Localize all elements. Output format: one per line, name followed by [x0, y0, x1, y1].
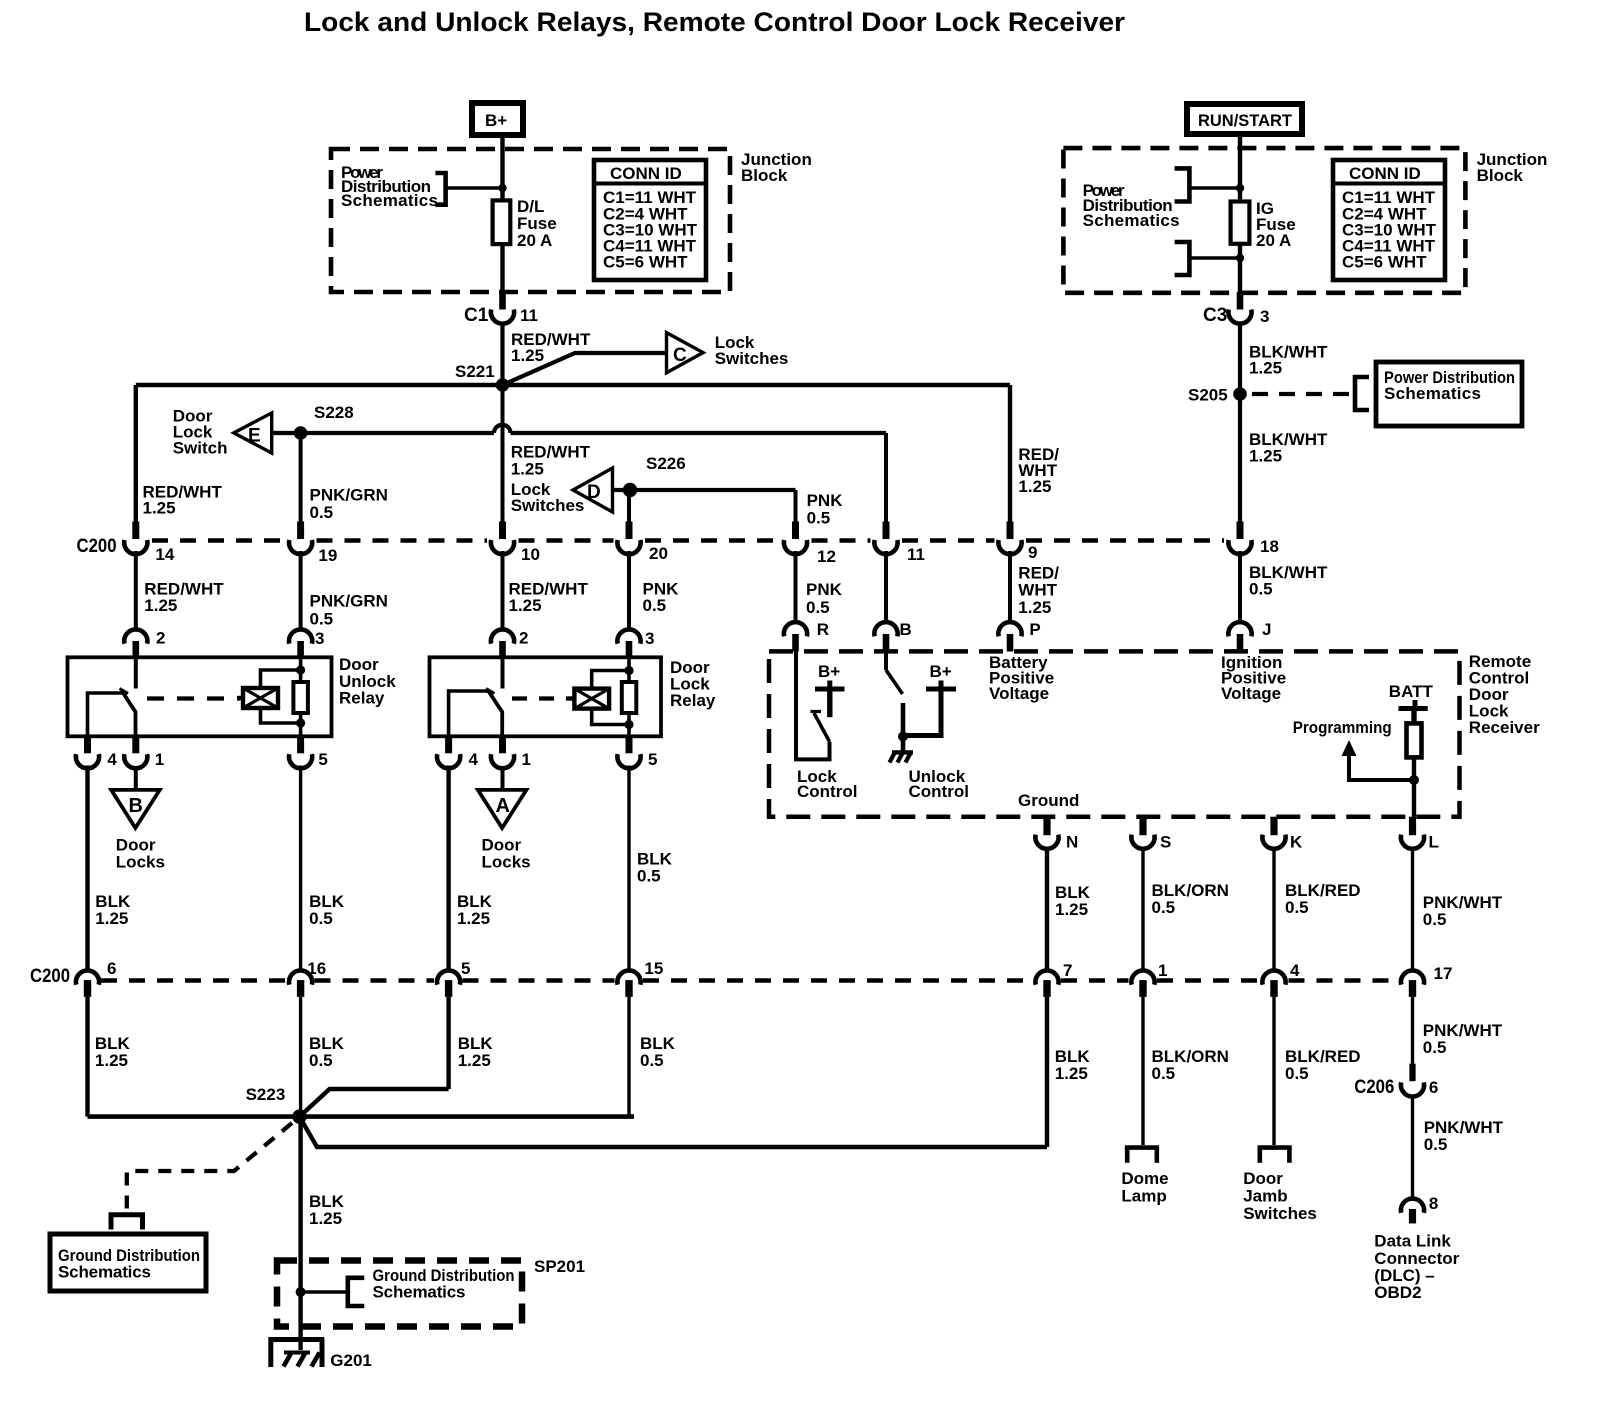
- svg-text:2: 2: [156, 629, 165, 648]
- wire C200-16 down to S223: [299, 997, 302, 1117]
- svg-text:6: 6: [1429, 1078, 1438, 1097]
- node relay K1 top: [296, 665, 305, 674]
- unlock control rake ground: [890, 752, 914, 762]
- wire label RED/WHT 1.25 (col 14 below C200): [144, 580, 224, 616]
- svg-text:1: 1: [522, 750, 531, 769]
- off-page triangle C: [667, 333, 704, 373]
- wire RUN/START down to fuse: [1238, 134, 1242, 202]
- wire SP201 node to bracket: [301, 1290, 348, 1294]
- relay K1 box: [68, 657, 332, 736]
- svg-text:Switches: Switches: [715, 349, 789, 368]
- wire label BLK/ORN 0.5 (col 1 below C200): [1152, 1047, 1229, 1083]
- node relay K2 top: [624, 666, 633, 675]
- svg-text:3: 3: [315, 629, 324, 648]
- wire S221 down to C200-10: [501, 385, 505, 523]
- wire hop to C200-11 branch: [511, 431, 887, 435]
- junction block 1 label: [741, 150, 812, 185]
- bracket connector lower (right JB): [1175, 242, 1190, 275]
- svg-text:0.5: 0.5: [1285, 898, 1309, 917]
- wire label BLK 0.5 (col 16 above C200): [309, 892, 345, 928]
- wire C200-11 to receiver pin B: [884, 551, 888, 622]
- connector relay1 pin 4: [76, 736, 118, 769]
- junction block 2 dashed box: [1063, 148, 1465, 293]
- door jamb switches label: [1243, 1169, 1317, 1223]
- svg-text:S228: S228: [314, 403, 354, 422]
- wire col 12 down to C200-12: [794, 490, 798, 523]
- wire label BLK 1.25 (col 7 below C200): [1055, 1047, 1091, 1083]
- connector C200 pin 17: [1401, 964, 1453, 997]
- svg-text:C5=6 WHT: C5=6 WHT: [603, 253, 688, 272]
- svg-text:4: 4: [469, 750, 479, 769]
- svg-text:0.5: 0.5: [640, 1051, 664, 1070]
- wire S223 main bus horizontal: [88, 1114, 635, 1119]
- connector receiver pin P: [998, 620, 1040, 652]
- svg-text:1.25: 1.25: [143, 499, 176, 518]
- svg-text:B+: B+: [485, 111, 507, 130]
- wire relay2 pin4 to C200-5: [446, 766, 450, 969]
- wire S205 down to C200-18: [1238, 394, 1242, 523]
- wire receiver pin S to C200-1: [1141, 848, 1144, 969]
- svg-text:Receiver: Receiver: [1469, 718, 1540, 737]
- svg-text:Voltage: Voltage: [1221, 684, 1281, 703]
- relay K1 coil: [237, 688, 278, 708]
- wire S223 down to G201: [298, 1117, 302, 1350]
- off-page triangle A: [478, 790, 527, 828]
- wire lower bracket to main: [1189, 256, 1240, 260]
- connector C200 pin 11: [874, 522, 925, 565]
- wire S223 upper elbow: [300, 1089, 449, 1117]
- relay K2 resistor: [622, 682, 637, 713]
- wire S226 down to C200-20: [627, 490, 631, 523]
- wire label PNK/WHT 0.5 (col 17 below C200): [1423, 1021, 1503, 1057]
- connector relay2 pin 3 entry: [617, 629, 654, 658]
- fuse F2 IG 20A: [1231, 202, 1250, 244]
- wire S228 down to C200-19: [299, 433, 303, 523]
- junction block 1 dashed box: [331, 149, 730, 292]
- svg-text:Relay: Relay: [670, 691, 716, 710]
- wire hop over S221 vertical: [494, 425, 511, 433]
- wire label BLK/WHT 1.25 (C3-S205): [1249, 343, 1328, 378]
- C200 row2 dashed harness line: [101, 978, 1398, 983]
- svg-text:Control: Control: [909, 782, 969, 801]
- svg-text:PNK: PNK: [806, 580, 843, 599]
- svg-text:3: 3: [645, 629, 654, 648]
- svg-text:0.5: 0.5: [1152, 1064, 1176, 1083]
- wire C200-12 to receiver pin R: [794, 551, 798, 622]
- svg-text:20 A: 20 A: [1256, 231, 1291, 250]
- svg-text:S: S: [1160, 833, 1171, 852]
- splice S221: [496, 378, 510, 392]
- wire label BLK/RED 0.5 (col 4 above C200): [1285, 881, 1361, 917]
- wire label BLK 0.5 (col 16 below C200): [309, 1034, 345, 1070]
- svg-text:Ground: Ground: [1018, 791, 1079, 810]
- relay K2 contact tick: [486, 689, 495, 694]
- svg-text:Locks: Locks: [482, 852, 531, 871]
- connector receiver pin L: [1401, 817, 1439, 852]
- B+ power symbol box: [472, 103, 523, 135]
- fork symbol to ground distribution: [109, 1215, 146, 1230]
- fuse F1 D/L 20A: [493, 200, 511, 244]
- svg-text:B+: B+: [930, 662, 952, 681]
- splice S228: [294, 426, 308, 440]
- wire label BLK/RED 0.5 (col 4 below C200): [1285, 1047, 1361, 1083]
- svg-text:1.25: 1.25: [1055, 900, 1088, 919]
- node BATT/programming junction: [1409, 775, 1419, 785]
- wire C200-7 down to ground bus: [1045, 997, 1049, 1147]
- relay K1 contact tick: [120, 689, 129, 694]
- svg-text:17: 17: [1434, 964, 1453, 983]
- wire C200-20 to relay2 pin3: [627, 551, 631, 630]
- connector C206 pin 6: [1354, 1064, 1438, 1098]
- connector relay1 pin 2 entry: [124, 629, 165, 658]
- unlock control wire from pin B: [884, 651, 888, 670]
- svg-text:S205: S205: [1188, 386, 1228, 405]
- svg-text:E: E: [248, 426, 261, 447]
- node SP201 junction: [296, 1287, 306, 1297]
- svg-text:K: K: [1290, 833, 1303, 852]
- wire label BLK/WHT 0.5 (col 18 below C200): [1249, 563, 1328, 599]
- svg-text:C200: C200: [30, 966, 70, 987]
- svg-text:1.25: 1.25: [511, 346, 544, 365]
- node: feed junction dot: [498, 184, 506, 192]
- wire label PNK/GRN 0.5 (col 19 below C200): [310, 592, 388, 629]
- svg-text:L: L: [1429, 833, 1439, 852]
- svg-text:0.5: 0.5: [1249, 580, 1273, 599]
- wire D to S226: [613, 488, 629, 492]
- svg-text:J: J: [1262, 620, 1271, 639]
- svg-text:CONN ID: CONN ID: [1349, 164, 1421, 183]
- bracket connector (left JB): [435, 173, 445, 205]
- connector C200 pin 16: [289, 959, 326, 997]
- svg-text:BATT: BATT: [1389, 682, 1434, 701]
- receiver label Remote Control Door Lock Receiver: [1469, 652, 1540, 737]
- wire label BLK 1.25 (col 5 below C200): [458, 1034, 494, 1070]
- power distribution schematics label (right JB): [1083, 181, 1180, 230]
- svg-text:G201: G201: [330, 1351, 372, 1370]
- unlock control switch arm: [886, 670, 903, 694]
- svg-text:1: 1: [1158, 961, 1167, 980]
- CONN ID table (left JB): [594, 160, 706, 280]
- svg-text:C200: C200: [77, 536, 117, 557]
- relay K2 label Door Lock Relay: [670, 658, 716, 710]
- C200 row1 dashed harness line: [152, 538, 1224, 543]
- svg-text:C5=6 WHT: C5=6 WHT: [1342, 253, 1427, 272]
- connector receiver pin B: [874, 620, 911, 652]
- wire C200-1 down to dome lamp: [1141, 997, 1144, 1145]
- off-page triangle B: [111, 790, 160, 828]
- wire label BLK/WHT 1.25 (S205-C200): [1249, 430, 1328, 466]
- svg-text:4: 4: [1290, 961, 1300, 980]
- svg-text:B: B: [900, 620, 912, 639]
- connector C200 pin 7: [1035, 961, 1072, 997]
- connector C200 pin 5: [437, 959, 470, 997]
- unlock control B+ feed: [906, 681, 956, 736]
- fuse F2 value label: [1256, 199, 1296, 250]
- svg-text:1.25: 1.25: [1249, 447, 1282, 466]
- wire C200-5 down to upper elbow: [446, 997, 450, 1089]
- connector relay1 pin 3 entry: [289, 629, 324, 658]
- connector C200 pin 10: [491, 522, 540, 565]
- connector relay2 pin 4: [437, 736, 479, 769]
- svg-text:18: 18: [1260, 537, 1279, 556]
- svg-text:0.5: 0.5: [310, 610, 334, 629]
- wire relay2 pin5 to C200-15: [627, 766, 630, 969]
- connector receiver pin R: [784, 620, 829, 652]
- wire C1 to S221: [500, 323, 504, 386]
- svg-text:0.5: 0.5: [1424, 1135, 1448, 1154]
- wire label BLK 0.5 (col 15 above C200): [637, 850, 673, 886]
- svg-text:15: 15: [644, 959, 663, 978]
- svg-text:1.25: 1.25: [144, 596, 177, 615]
- door jamb switches fork: [1258, 1148, 1292, 1163]
- wire col 11 down to C200-11: [884, 433, 888, 523]
- splice SP201 dashed box: [277, 1261, 522, 1327]
- connector C200 pin 15: [617, 959, 663, 997]
- svg-text:1.25: 1.25: [511, 460, 544, 479]
- connector relay2 pin 2 entry: [491, 629, 529, 658]
- wire E to S228 to hop: [272, 431, 494, 435]
- svg-text:C206: C206: [1354, 1077, 1394, 1098]
- wire C200-14 to relay1 pin2: [134, 551, 138, 630]
- svg-text:SP201: SP201: [534, 1257, 585, 1276]
- wire C200-4 down to door jamb switches: [1272, 997, 1275, 1145]
- connector receiver pin S: [1131, 817, 1171, 852]
- svg-text:0.5: 0.5: [1423, 910, 1447, 929]
- svg-text:20: 20: [649, 544, 668, 563]
- svg-text:Lamp: Lamp: [1121, 1187, 1166, 1206]
- power distribution schematics label (left JB): [341, 163, 438, 210]
- fuse F1 value label: [517, 197, 557, 250]
- programming arrowhead: [1342, 740, 1357, 756]
- svg-text:5: 5: [648, 750, 657, 769]
- wire C206 down to DLC pin 8: [1411, 1095, 1414, 1197]
- connector receiver pin K: [1262, 817, 1303, 852]
- svg-text:7: 7: [1063, 961, 1072, 980]
- svg-text:Block: Block: [1477, 166, 1524, 185]
- svg-text:B+: B+: [818, 662, 840, 681]
- wire fuse to C1: [500, 244, 504, 295]
- wire label BLK/ORN 0.5 (col 1 above C200): [1152, 881, 1229, 917]
- CONN ID table (right JB): [1333, 160, 1445, 280]
- svg-text:RUN/START: RUN/START: [1198, 111, 1293, 130]
- connector C200 pin 18: [1228, 522, 1279, 557]
- svg-text:C3: C3: [1203, 305, 1227, 326]
- svg-text:1.25: 1.25: [1249, 359, 1282, 378]
- connector C200 pin 1: [1131, 961, 1167, 997]
- svg-text:Voltage: Voltage: [989, 684, 1049, 703]
- wire label PNK 0.5 (col 12 below C200): [806, 580, 843, 617]
- relay K2 coil: [568, 689, 609, 709]
- svg-text:Data Link: Data Link: [1374, 1232, 1451, 1251]
- svg-text:Relay: Relay: [339, 689, 385, 708]
- svg-text:1.25: 1.25: [1055, 1064, 1088, 1083]
- wire fuse2 down between feed dots to C3: [1238, 244, 1242, 295]
- wire relay1 pin5 to C200-16: [299, 766, 302, 969]
- svg-text:Block: Block: [741, 166, 788, 185]
- triangle B label Door Locks: [116, 836, 165, 872]
- relay K1 switch arm: [122, 691, 136, 737]
- svg-text:12: 12: [817, 547, 836, 566]
- connector C200 pin 12: [784, 522, 836, 567]
- svg-text:Control: Control: [797, 782, 857, 801]
- svg-text:Schematics: Schematics: [373, 1283, 466, 1302]
- wire label BLK 0.5 (col 15 below C200): [640, 1034, 676, 1070]
- wire BATT resistor to node: [1412, 757, 1416, 816]
- svg-text:0.5: 0.5: [1285, 1064, 1309, 1083]
- svg-text:19: 19: [318, 546, 337, 565]
- relay K1 armature dashed link: [147, 696, 240, 700]
- relay K2 arm base L-wire from pin 4: [449, 691, 489, 736]
- RUN/START power symbol box: [1187, 104, 1302, 134]
- node unlock control junction: [898, 732, 908, 742]
- svg-text:Schematics: Schematics: [58, 1263, 151, 1282]
- dome lamp label: [1121, 1169, 1168, 1206]
- connector C200 pin 6: [76, 959, 117, 997]
- svg-text:A: A: [496, 795, 510, 817]
- BATT resistor: [1407, 723, 1422, 757]
- splice S226: [623, 483, 637, 497]
- svg-text:PNK: PNK: [807, 491, 844, 510]
- programming arrow wire: [1349, 755, 1414, 780]
- relay K1 coil loop wires: [261, 670, 301, 688]
- connector C1 pin 11: [464, 292, 538, 326]
- unlock control contact stub: [901, 703, 906, 751]
- wire C200-6 down to S223 bus: [85, 997, 89, 1117]
- off-page triangle D: [573, 468, 613, 512]
- bracket connector (S205 ref): [1355, 377, 1369, 410]
- svg-text:4: 4: [107, 750, 117, 769]
- wire C200-9 to receiver pin P: [1008, 551, 1012, 622]
- wire label PNK/WHT 0.5 (C206 to DLC): [1424, 1118, 1504, 1154]
- connector C200 pin 4: [1262, 961, 1300, 997]
- wire label PNK/WHT 0.5 (col 17 above C200): [1423, 893, 1503, 929]
- node: upper feed dot: [1236, 184, 1244, 192]
- svg-text:Programming: Programming: [1293, 718, 1392, 737]
- connector relay1 pin 5: [289, 736, 328, 769]
- svg-text:0.5: 0.5: [309, 1051, 333, 1070]
- wire label RED/WHT 1.25 (col 9 above C200): [1018, 445, 1059, 496]
- svg-text:Switches: Switches: [511, 496, 585, 515]
- svg-text:Locks: Locks: [116, 852, 165, 871]
- relay K2 switch arm: [488, 691, 502, 737]
- svg-text:0.5: 0.5: [807, 509, 831, 528]
- svg-text:CONN ID: CONN ID: [610, 164, 682, 183]
- svg-text:S221: S221: [455, 362, 495, 381]
- svg-text:B: B: [129, 795, 143, 817]
- svg-text:C1: C1: [464, 305, 489, 326]
- svg-text:14: 14: [155, 545, 174, 564]
- wire C3 to S205: [1238, 323, 1242, 395]
- wire S223 lower elbow to ground bus: [300, 1117, 1048, 1147]
- svg-text:D: D: [587, 482, 601, 503]
- bracket connector upper (right JB): [1175, 168, 1190, 201]
- triangle A label Door Locks: [482, 836, 531, 872]
- lock control switch arm: [814, 713, 830, 742]
- bracket connector (SP201 ref): [348, 1278, 365, 1306]
- lock control B+ feed: [815, 681, 845, 718]
- dashed ref wire S223 to ground distribution: [127, 1123, 292, 1212]
- wire C200-18 to receiver pin J: [1238, 551, 1242, 622]
- connector C200 pin 9: [998, 522, 1037, 563]
- svg-text:P: P: [1029, 620, 1040, 639]
- connector receiver pin N: [1035, 817, 1078, 852]
- wire S221 right branch down to C200-9: [1008, 385, 1012, 523]
- svg-text:S226: S226: [646, 454, 686, 473]
- wire label RED/WHT 1.25 (col 10 below C200): [509, 580, 589, 616]
- svg-text:11: 11: [520, 306, 538, 325]
- junction block 2 label: [1477, 150, 1548, 185]
- triangle E label Door Lock Switch: [173, 407, 228, 458]
- wire receiver pin N to C200-7: [1045, 848, 1049, 969]
- svg-text:1.25: 1.25: [1018, 477, 1051, 496]
- svg-text:0.5: 0.5: [806, 598, 830, 617]
- svg-text:5: 5: [461, 959, 470, 978]
- wire label PNK 0.5 (col 12 above C200): [807, 491, 844, 528]
- svg-text:1.25: 1.25: [458, 1051, 491, 1070]
- svg-text:0.5: 0.5: [637, 867, 661, 886]
- relay K1 coil/resistor vertical pin3 to pin5: [299, 657, 303, 736]
- svg-text:Switches: Switches: [1243, 1204, 1317, 1223]
- svg-text:Door: Door: [1243, 1169, 1283, 1188]
- svg-text:1.25: 1.25: [509, 596, 542, 615]
- svg-text:0.5: 0.5: [1152, 898, 1176, 917]
- wire label RED/WHT 1.25 (col 14 above C200): [143, 483, 223, 518]
- off-page triangle E: [234, 413, 272, 453]
- svg-text:Schematics: Schematics: [341, 191, 438, 210]
- lock control arm tick: [811, 710, 822, 713]
- svg-text:1: 1: [155, 750, 164, 769]
- svg-text:R: R: [817, 620, 829, 639]
- svg-text:Switch: Switch: [173, 439, 228, 458]
- connector relay2 pin 1: [491, 736, 531, 769]
- svg-text:S223: S223: [246, 1085, 286, 1104]
- ground distribution schematics box (left): [50, 1234, 206, 1291]
- node relay K2 bottom: [624, 720, 633, 729]
- wire receiver pin L to C200-17: [1411, 848, 1414, 969]
- svg-text:1.25: 1.25: [95, 1051, 128, 1070]
- DLC label: [1374, 1232, 1459, 1303]
- svg-text:PNK/GRN: PNK/GRN: [310, 592, 388, 611]
- relay K2 box: [430, 657, 662, 736]
- dashed wire S205 to bracket: [1252, 392, 1352, 396]
- wire S226 to col 12: [629, 488, 796, 492]
- relay K2 coil/resistor vertical pin3 to pin5: [627, 657, 631, 736]
- dome lamp fork: [1125, 1148, 1159, 1163]
- svg-text:Jamb: Jamb: [1243, 1187, 1287, 1206]
- svg-text:0.5: 0.5: [310, 503, 334, 522]
- wire label BLK 1.25 (col 5 above C200): [457, 892, 493, 928]
- svg-text:1.25: 1.25: [1018, 598, 1051, 617]
- wire label RED/WHT 1.25 (col 9 below C200): [1018, 564, 1059, 618]
- ground G201: [268, 1340, 324, 1368]
- wire S221 left branch down to C200-14: [134, 385, 138, 523]
- svg-text:0.5: 0.5: [1423, 1038, 1447, 1057]
- svg-text:20 A: 20 A: [517, 231, 552, 250]
- wire B+ down to fuse: [500, 136, 504, 200]
- receiver text Ignition Positive Voltage: [1221, 653, 1286, 703]
- svg-text:5: 5: [318, 750, 327, 769]
- svg-text:Lock and Unlock Relays, Remote: Lock and Unlock Relays, Remote Control D…: [304, 7, 1126, 37]
- connector relay1 pin 1: [124, 736, 164, 769]
- splice S223: [292, 1109, 306, 1123]
- svg-text:10: 10: [521, 545, 540, 564]
- svg-text:0.5: 0.5: [643, 596, 667, 615]
- wire upper bracket to main: [1189, 186, 1240, 190]
- relay K1 fixed contact from pin 2: [134, 657, 138, 688]
- connector receiver pin J: [1228, 620, 1271, 652]
- wire relay1 pin1 to triangle B: [134, 767, 138, 790]
- wire C200-15 down to S223 bus: [627, 997, 630, 1117]
